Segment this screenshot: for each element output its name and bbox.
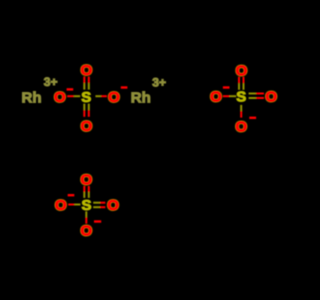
svg-text:O: O (108, 89, 120, 106)
svg-text:3+: 3+ (152, 76, 166, 90)
svg-text:Rh: Rh (131, 90, 151, 107)
svg-text:O: O (236, 62, 248, 79)
bond O1-S1 single (red half) (67, 95, 74, 97)
svg-text:3+: 3+ (44, 75, 58, 89)
bond S2=O7 double line b (olive half) (249, 97, 257, 99)
charge O1 minus (67, 88, 74, 90)
bond S1=O2 double line a (olive half) (83, 83, 85, 90)
bond S1=O2 double line a (red half) (83, 77, 85, 84)
svg-text:S: S (81, 89, 91, 106)
bond S1-O4 single (olive half) (95, 95, 101, 97)
charge O12 minus (94, 220, 101, 222)
bond S1=O3 double line a (red half) (83, 110, 85, 117)
svg-text:S: S (236, 89, 246, 106)
bond S1=O3 double line b (red half) (88, 110, 90, 117)
charge O10 minus (68, 194, 75, 196)
bond S2=O5 double line a (red half) (238, 77, 240, 84)
charge O6 minus (223, 86, 230, 88)
bond O10-S3 single (red half) (68, 204, 74, 206)
bond S2=O5 double line b (red half) (243, 77, 245, 84)
bond O10-S3 single (olive half) (74, 204, 80, 206)
bond S1=O2 double line b (olive half) (88, 83, 90, 90)
svg-text:O: O (81, 62, 93, 79)
bond S2=O7 double line a (red half) (256, 93, 264, 95)
bond S1-O4 single (red half) (101, 95, 107, 97)
bond S3=O11 double line a (red half) (100, 202, 105, 204)
svg-text:O: O (81, 118, 93, 135)
bond S2=O7 double line b (red half) (256, 97, 264, 99)
bond S3=O9 double line a (red half) (83, 186, 85, 192)
bond S2-O8 single (olive half) (240, 105, 242, 111)
svg-text:O: O (210, 89, 222, 106)
bond S3=O11 double line b (olive half) (93, 206, 100, 208)
svg-text:O: O (80, 223, 92, 240)
bond S2=O5 double line b (olive half) (243, 83, 245, 90)
svg-text:Rh: Rh (22, 90, 42, 107)
bond S2=O7 double line a (olive half) (249, 93, 257, 95)
bond O6-S2 single (red half) (223, 95, 230, 97)
svg-text:O: O (80, 171, 92, 188)
bond S3=O9 double line b (red half) (88, 186, 90, 192)
bond S3=O9 double line a (olive half) (83, 192, 85, 198)
svg-text:O: O (265, 89, 277, 106)
svg-text:O: O (107, 197, 119, 214)
bond S3=O11 double line a (olive half) (93, 202, 100, 204)
bond S1=O3 double line a (olive half) (83, 104, 85, 111)
bond S2=O5 double line a (olive half) (238, 83, 240, 90)
bond S3-O12 single (red half) (85, 217, 87, 223)
bond S3=O9 double line b (olive half) (88, 192, 90, 198)
bond O1-S1 single (olive half) (74, 95, 80, 97)
svg-text:O: O (235, 119, 247, 136)
bond S2-O8 single (red half) (240, 111, 242, 117)
bond S3=O11 double line b (red half) (100, 206, 105, 208)
bond S1=O3 double line b (olive half) (88, 104, 90, 111)
bond O6-S2 single (olive half) (230, 95, 237, 97)
bond S1=O2 double line b (red half) (88, 77, 90, 84)
svg-text:O: O (54, 89, 66, 106)
charge O4 minus (121, 86, 128, 88)
svg-text:O: O (55, 197, 67, 214)
charge O8 minus (249, 117, 256, 119)
bond S3-O12 single (olive half) (85, 211, 87, 217)
